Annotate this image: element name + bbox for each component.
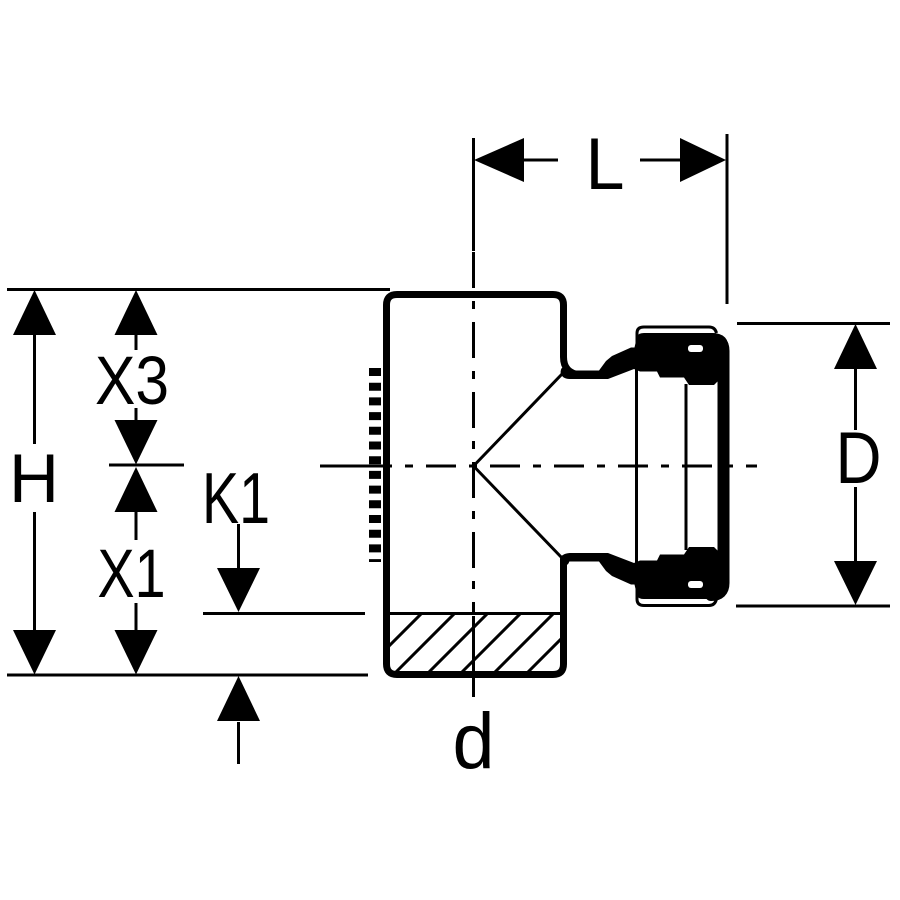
svg-text:K1: K1: [202, 459, 270, 539]
svg-text:d: d: [453, 696, 495, 785]
svg-text:L: L: [586, 124, 625, 205]
svg-text:D: D: [836, 418, 882, 499]
svg-text:X1: X1: [98, 535, 166, 612]
svg-text:X3: X3: [95, 342, 169, 419]
svg-text:H: H: [9, 440, 59, 517]
